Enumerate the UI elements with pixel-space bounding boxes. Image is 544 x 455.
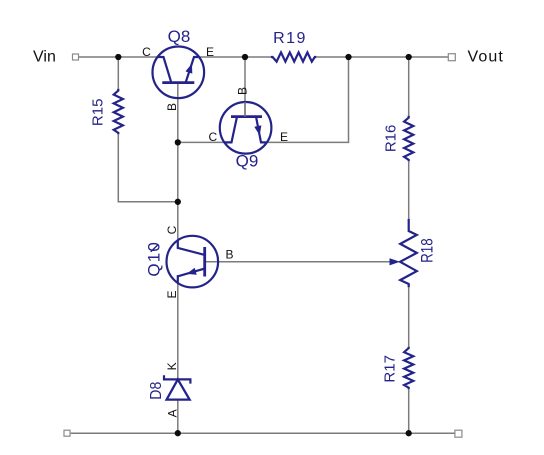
- svg-text:B: B: [225, 247, 233, 261]
- svg-text:A: A: [166, 409, 180, 417]
- svg-text:Q9: Q9: [236, 152, 259, 171]
- svg-text:R17: R17: [382, 355, 399, 383]
- svg-text:R15: R15: [90, 99, 107, 127]
- svg-text:E: E: [206, 45, 214, 59]
- svg-text:E: E: [280, 130, 288, 144]
- svg-text:Q10: Q10: [145, 241, 164, 277]
- svg-text:C: C: [208, 130, 217, 144]
- svg-text:R16: R16: [383, 125, 400, 153]
- svg-text:D8: D8: [148, 382, 165, 400]
- svg-text:R18: R18: [417, 238, 436, 263]
- svg-text:R19: R19: [273, 30, 307, 47]
- svg-text:Vin: Vin: [33, 49, 56, 66]
- svg-text:Q8: Q8: [168, 27, 191, 46]
- svg-text:K: K: [165, 362, 179, 370]
- svg-text:C: C: [142, 45, 151, 59]
- svg-text:B: B: [165, 103, 179, 111]
- svg-text:Vout: Vout: [468, 49, 504, 66]
- svg-text:E: E: [165, 290, 179, 298]
- svg-text:C: C: [165, 225, 179, 234]
- svg-text:B: B: [236, 87, 250, 95]
